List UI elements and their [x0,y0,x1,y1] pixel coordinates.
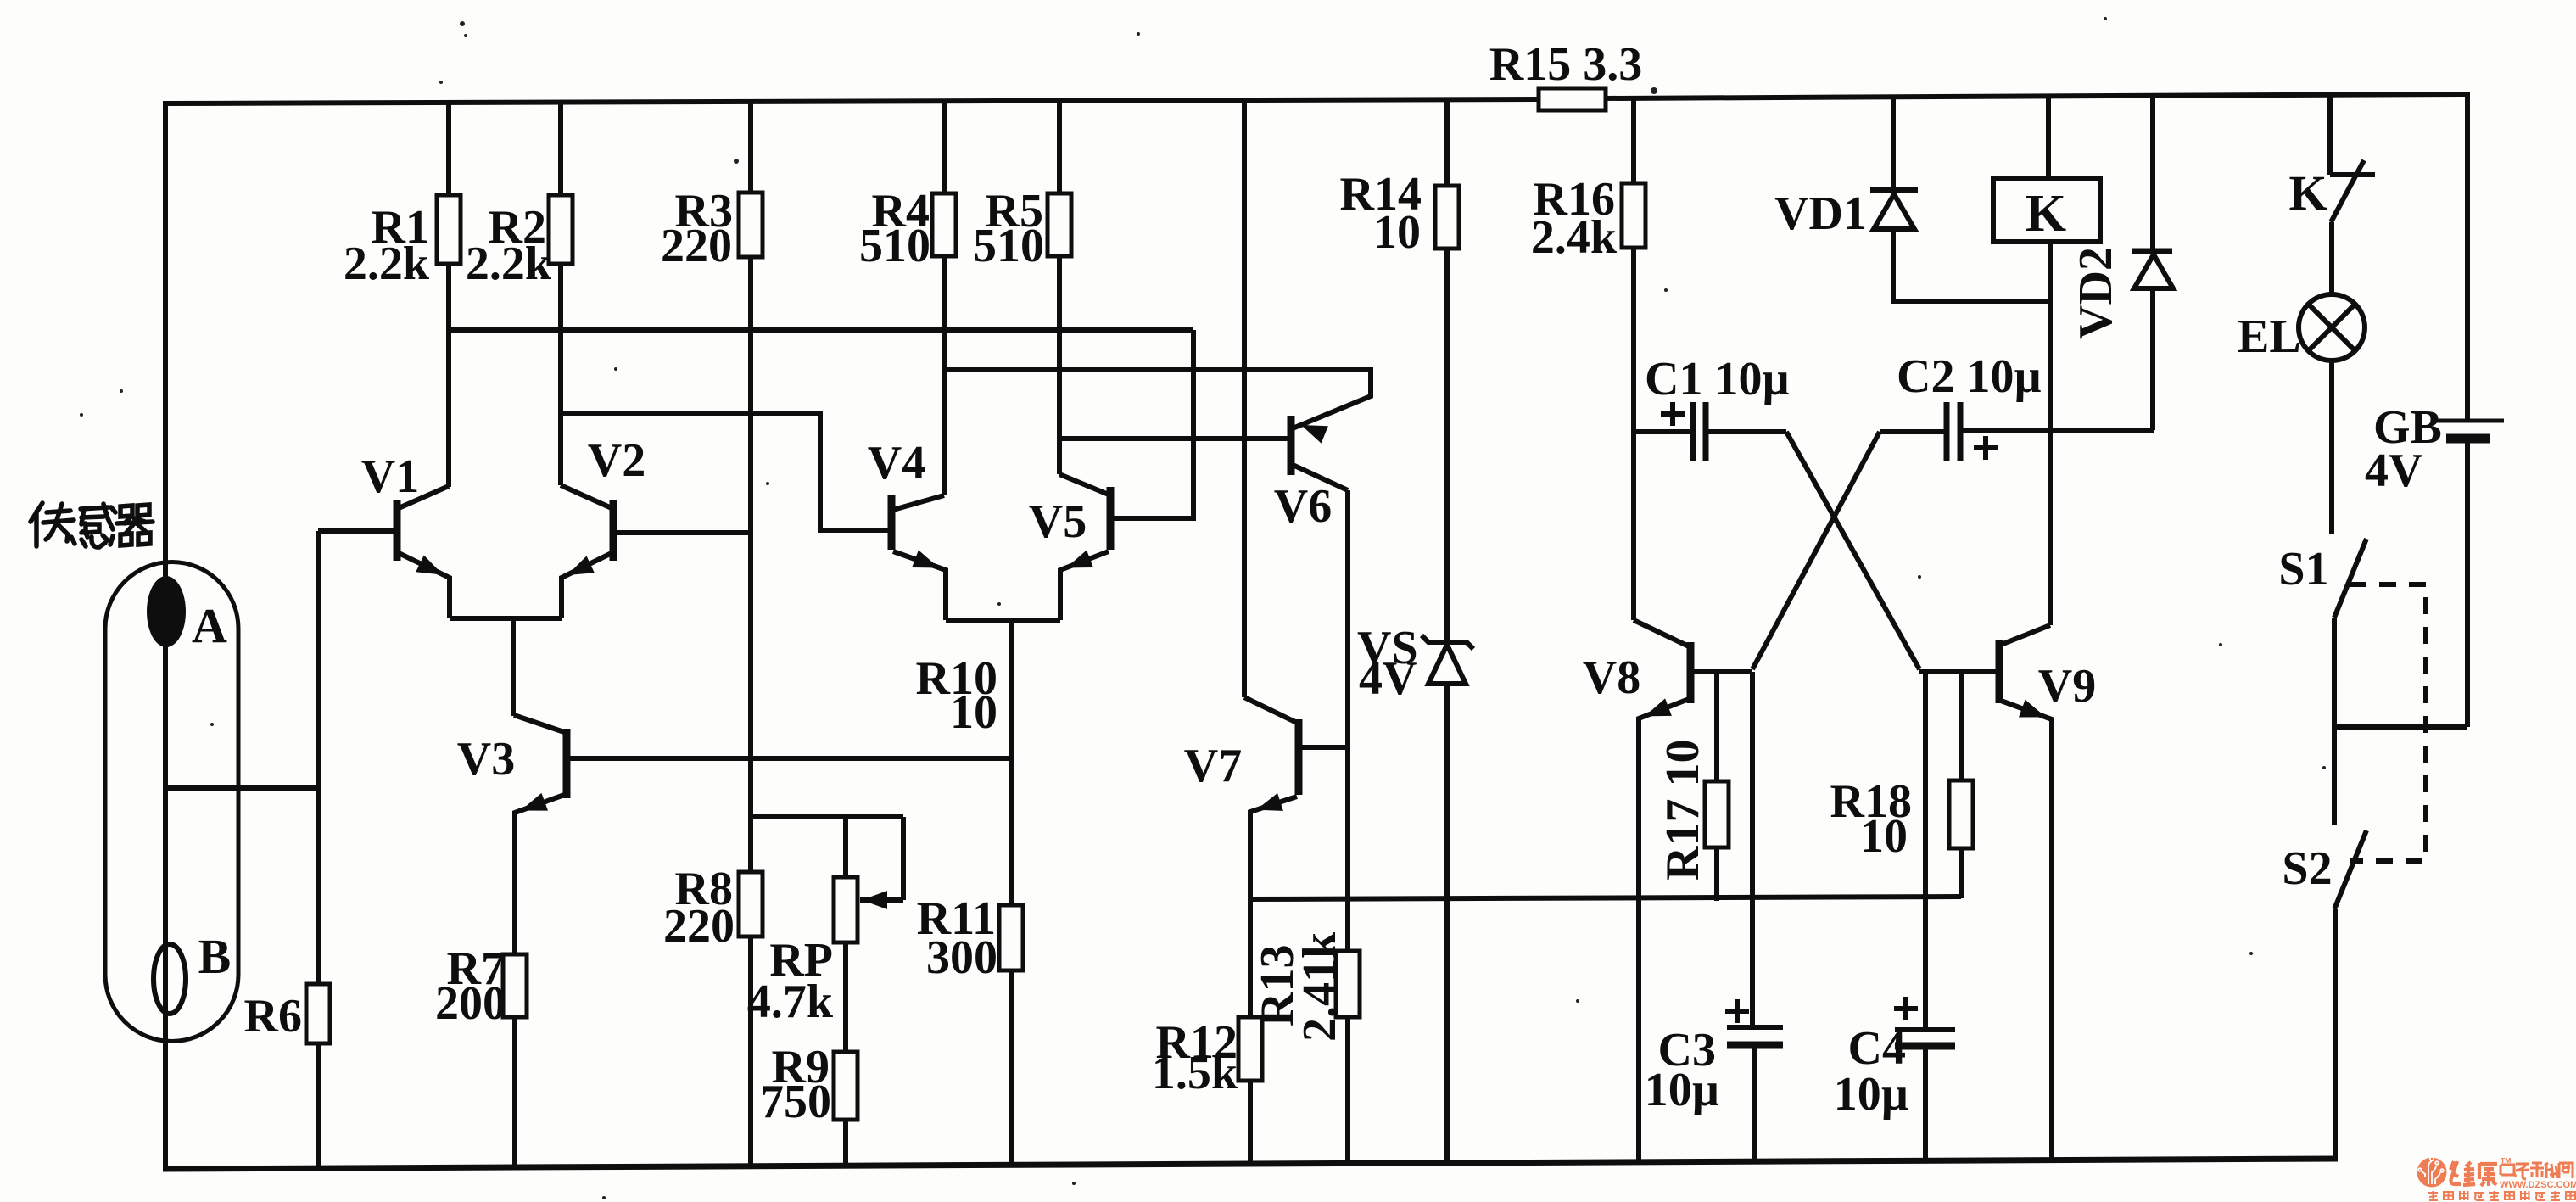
wire V9 base [1919,669,1999,674]
transistor V7 emitter [1250,797,1297,1017]
resistor R2 [549,195,573,264]
transistor V4 collector [893,495,944,510]
wire V6 base from R5/V5 node [1059,436,1291,441]
capacitor C1 left plate [1690,402,1696,461]
wire bottom ground rail [163,1159,2338,1169]
wire RP wiper arm [860,897,903,903]
resistor R12 [1238,1017,1262,1081]
wire R16 top from rail [1631,98,1636,183]
svg-text:C2 10µ: C2 10µ [1897,350,2042,403]
K contact blade [2331,160,2364,222]
capacitor C3 bottom plate [1727,1042,1783,1049]
wire V2 base to R3 node [613,530,750,535]
wire R18 top [1959,672,1964,780]
capacitor C4 bottom plate [1895,1043,1955,1050]
wire K contact to lamp [2329,222,2334,295]
resistor R3 [739,193,763,257]
transistor V5 collector [1059,474,1109,495]
wire R6/V1-base vertical [316,531,321,1168]
wire R5 top [1057,100,1062,193]
wire V9 collector up to relay K [2048,242,2053,625]
svg-text:V3: V3 [457,733,515,785]
wire R3 top [748,100,753,193]
transistor V7 collector [1244,697,1297,723]
zener diode VS triangle [1428,645,1466,684]
V2 emitter arrow [567,556,595,575]
wire V7 collector vertical from rail [1242,99,1247,697]
V4 emitter arrow [912,551,939,568]
svg-text:220: 220 [663,900,735,953]
resistor R11 [999,905,1023,970]
transistor V2 base bar [610,500,617,561]
wire C1 left lead [1634,429,1693,434]
svg-text:R15 3.3: R15 3.3 [1489,38,1642,91]
wire battery-bottom junction horizontal [2334,724,2467,730]
svg-text:C4: C4 [1848,1022,1906,1075]
svg-text:V4: V4 [868,437,925,489]
svg-text:C1 10µ: C1 10µ [1645,353,1790,405]
transistor V3 base bar [563,729,571,798]
svg-text:200: 200 [435,977,506,1030]
svg-text:K: K [2026,185,2066,243]
wire R18 bottom [1959,848,1964,898]
scan specks (noise) [460,21,465,26]
V1 emitter arrow [416,556,443,575]
wire C4 link down from V9 base [1923,672,1928,1030]
diode VD2 triangle [2134,254,2173,288]
wire VD2 bottom [2150,288,2155,430]
wire R1 top [446,101,451,195]
svg-text:V6: V6 [1274,480,1332,533]
svg-text:10µ: 10µ [1645,1064,1719,1116]
V6 emitter arrow (PNP) [1301,425,1328,444]
svg-text:220: 220 [661,220,732,272]
svg-text:4.7k: 4.7k [747,976,834,1028]
resistor R4 [932,193,956,256]
V8 emitter arrow [1645,698,1672,716]
wire R17 bottom [1714,847,1719,901]
transistor V4 emitter [893,551,946,620]
wire emitter node down through R11 (R10 labelled) [1009,620,1014,905]
V7 emitter arrow [1256,793,1283,811]
wire emitter node down to V3 collector [511,618,516,716]
wire C2 to V8 base diagonal [1752,432,1880,669]
wire C3 bottom to rail [1752,1045,1757,1161]
svg-text:10: 10 [1860,810,1908,863]
transistor V9 emitter [2001,701,2052,1160]
transistor V1 collector [399,486,449,508]
transistor V4 base bar [888,495,896,550]
wire sensor middle tap to R6 node [166,785,318,791]
battery GB negative plate (short) [2446,434,2490,444]
wire top supply rail (left section) [165,99,1539,103]
wire R12 bottom to rail [1248,1081,1253,1164]
transistor V8 base bar [1687,642,1695,703]
wire R14 bottom to VS [1444,249,1450,642]
transistor V7 base bar [1295,719,1303,795]
wire V8 base [1690,669,1752,674]
wire V8 base down to C3 [1750,672,1755,1027]
svg-text:510: 510 [859,220,930,272]
label C1 plus [1661,402,1685,426]
switch S1 blade [2334,539,2366,618]
wire V7 base to V6-collector node [1299,745,1348,750]
wire R5 bottom to V5 collector [1057,256,1062,474]
electrode B (open) [154,944,186,1014]
transistor V5 base bar [1107,487,1115,550]
resistor R1 [437,195,461,264]
K contact fixed tick [2330,172,2375,177]
diode VD1 cathode bar [1870,187,1918,193]
V5 emitter arrow [1066,551,1093,568]
V3 emitter arrow [521,793,548,811]
V9 emitter arrow [2019,700,2046,718]
wire S1 lower to battery junction [2332,618,2337,825]
wire R4-node to V6 emitter feed [944,370,1371,428]
transistor V6 base bar [1288,416,1295,475]
svg-text:S1: S1 [2278,543,2328,595]
svg-text:300: 300 [926,931,997,984]
watermark logo 维库电子市场网 (dzsc.com) [2417,1158,2447,1188]
wire V4V5 common emitter [946,618,1060,623]
wire emitter-bias rail (V7 emitter to R18) [1250,897,1961,899]
label C2 plus [1974,436,1998,460]
wire R1 bottom to V1 collector [446,264,451,487]
capacitor C1 right plate [1703,402,1709,461]
transistor V3 collector [514,715,567,733]
wire R7 bottom to rail [512,1017,517,1168]
transistor V1 emitter [399,553,450,618]
wire V5 base jog from node A [1110,330,1193,518]
svg-text:V7: V7 [1184,740,1242,792]
resistor R8 [739,872,763,936]
wire GB top from rail [2465,92,2470,421]
transistor V8 emitter [1639,699,1689,1162]
transistor V1 base bar [394,500,401,561]
wire relay K top from rail [2046,95,2051,178]
wire C2 right lead [1960,428,2154,433]
RP wiper arrow [862,891,887,909]
transistor V5 emitter [1060,551,1109,620]
wire R2 bottom to V2 collector [558,264,563,485]
svg-text:10: 10 [1373,206,1421,259]
zener diode VS cathode bar [1422,635,1473,649]
svg-text:A: A [192,598,227,653]
lamp EL cross spokes [2308,304,2355,350]
svg-text:750: 750 [760,1076,831,1128]
lamp EL circle [2299,294,2365,361]
wire C1 to V9 base diagonal [1786,432,1919,669]
svg-text:4V: 4V [1359,652,1417,705]
wire R2 top [558,101,563,195]
label 传感器 (sensor) [31,503,153,547]
svg-text:B: B [198,929,232,984]
resistor R18 [1949,780,1973,848]
wire C4 bottom to rail [1923,1046,1928,1160]
relay K coil box [1993,178,2100,242]
wire R4 bottom to V4 collector [942,256,947,495]
resistor R6 [306,984,330,1043]
wire R3/R8 node to RP top [751,814,903,819]
resistor R16 [1622,183,1646,248]
svg-text:V1: V1 [361,450,419,503]
wire V6 collector down to R13 [1345,490,1350,951]
wire RP bottom to R9 [843,942,848,1052]
svg-text:2.2k: 2.2k [344,238,430,290]
wire GB bottom [2465,439,2470,727]
svg-text:VD2: VD2 [2070,247,2122,339]
svg-text:R6: R6 [244,990,302,1043]
wire lamp to S1 [2329,361,2334,534]
wire V1V2 common emitter [450,616,562,621]
wire S2 lower to rail [2333,909,2338,1160]
svg-text:V5: V5 [1029,495,1087,548]
resistor R5 [1048,193,1071,256]
wire V2-collector to V4-base link [561,413,891,530]
svg-text:V8: V8 [1583,651,1640,704]
wire V1 base [318,528,397,534]
svg-text:EL: EL [2238,310,2301,363]
svg-text:VD1: VD1 [1774,187,1867,240]
wire VD1 top from rail [1891,96,1896,190]
svg-text:S2: S2 [2282,842,2332,895]
sensor body (stadium outline) 传感器 [105,562,238,1042]
resistor R9 [834,1052,858,1120]
wire R13 bottom to rail [1345,1017,1350,1163]
wire left vertical from top rail to bottom rail [163,101,168,1169]
svg-text:V9: V9 [2038,660,2096,713]
wire R8 bottom to rail [748,936,753,1166]
svg-text:WWW.DZSC.COM: WWW.DZSC.COM [2500,1180,2576,1190]
wire R11 bottom to rail [1009,970,1014,1166]
label C4 plus [1894,997,1918,1020]
transistor V2 collector [561,485,612,508]
svg-text:10: 10 [950,686,997,739]
resistor R13 [1336,951,1360,1017]
resistor R14 [1435,186,1459,249]
svg-text:V2: V2 [588,434,645,487]
svg-text:1.5k: 1.5k [1152,1047,1238,1099]
wire top supply rail (right section) [1606,94,2465,98]
diode VD1 triangle [1874,194,1914,229]
wire V3 base to R11 line [567,756,1011,761]
wire R14 top [1444,98,1450,186]
S1-S2 gang linkage (dashed) [2350,584,2426,861]
wire VS bottom to rail [1444,684,1450,1163]
wire VD2 top from rail [2150,95,2155,251]
wire K-contact drop from rail [2327,94,2333,175]
transistor V6 collector [1293,465,1348,490]
svg-text:K: K [2288,165,2327,221]
wire R16 bottom to V8 collector [1631,248,1636,620]
battery GB positive plate (long) [2432,419,2504,423]
capacitor C2 left plate [1944,402,1950,461]
node A wire (R1 bottom to V5 base feed) [449,327,1193,333]
transistor V9 base bar [1996,640,2003,703]
svg-text:10µ: 10µ [1834,1068,1908,1121]
svg-text:2.2k: 2.2k [466,238,552,290]
svg-text:4V: 4V [2365,444,2422,497]
wire R9 bottom to rail [843,1120,848,1166]
capacitor C2 right plate [1958,402,1964,461]
resistor R15 (horizontal, on rail) [1539,88,1606,110]
wire R3 bottom long [748,257,753,872]
wire VD1 bottom link to relay [1893,229,2048,301]
svg-text:2.41k: 2.41k [1294,931,1346,1042]
transistor V2 emitter [562,553,612,618]
diode VD2 cathode bar [2132,249,2172,254]
wire RP wiper link down [901,817,906,900]
switch S2 blade [2334,830,2366,909]
label C3 plus [1725,999,1749,1023]
svg-text:R17 10: R17 10 [1657,740,1709,881]
transistor V9 collector [2001,625,2050,645]
wire R17 top [1714,672,1719,781]
transistor V8 collector [1634,620,1689,646]
wire C2 left lead [1880,429,1947,434]
resistor R17 [1705,781,1729,847]
potentiometer RP body [834,877,858,942]
capacitor C3 top plate [1727,1025,1783,1030]
wire C1 right lead [1706,429,1786,434]
transistor V3 emitter [515,794,567,954]
svg-text:2.4k: 2.4k [1531,211,1618,264]
resistor R7 [503,954,527,1017]
svg-text:510: 510 [973,220,1044,272]
capacitor C4 top plate [1895,1027,1955,1032]
electrode A (filled) [147,576,186,647]
wire R4 top [942,100,947,193]
wire RP top stub [843,817,848,877]
